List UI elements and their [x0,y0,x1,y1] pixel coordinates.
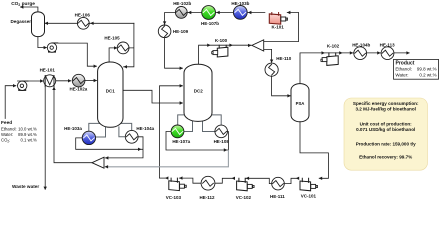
arrow VC-102 discharge [232,177,235,180]
compressor K-101 heat pump pink [269,13,287,30]
arrow into VC-101 [319,177,322,180]
svg-text:CO2:: CO2: [1,138,10,144]
arrow into HE-101 [40,79,43,82]
svg-text:HE-104b: HE-104b [352,43,370,48]
heat exchanger HE-102b gray [173,1,191,19]
heat exchanger HE-112 intercooler [199,176,215,200]
vessel Degasser [11,12,45,37]
svg-text:Ethanol:: Ethanol: [395,67,412,72]
svg-text:HE-107a: HE-107a [172,139,190,144]
wire feed inlet to pump P1 [5,86,16,119]
arrow into pump P2 [44,46,47,49]
wire DC2 condensate to mixer gray segment [105,150,228,166]
arrow into K-100 [207,44,210,47]
svg-text:Product: Product [396,60,415,66]
mixer triangle bottoms [92,157,104,168]
svg-text:99.8 wt.%: 99.8 wt.% [417,67,437,72]
svg-text:VC-103: VC-103 [166,195,182,200]
compressor VC-101 [300,178,318,198]
svg-text:VC-101: VC-101 [301,193,317,198]
wire splitter top outlet to K-101 suction [264,13,299,42]
svg-text:K-102: K-102 [327,43,340,48]
heat exchanger HE-108 [214,125,230,144]
arrow into K-101 [287,11,290,14]
wire CO2 purge line from degasser top [20,7,38,12]
svg-text:3.2 MJ-fuel/kg of bioethanol: 3.2 MJ-fuel/kg of bioethanol [355,107,416,112]
wire condensate recycle line HE-106 to degasser [45,22,134,24]
svg-text:HE-106: HE-106 [75,12,91,17]
wire DC1 bottoms collection to mixer [76,137,143,158]
arrow into VC-103 [179,176,182,179]
svg-text:89.9 wt.%: 89.9 wt.% [18,132,37,137]
heat exchanger HE-106 [75,12,91,29]
wire DC1 overhead to HE-105 [109,48,117,63]
compressor VC-103 [166,178,187,200]
wire DC1 side draw to DC2 [123,90,182,103]
heat exchanger HE-107b green [201,6,219,27]
svg-text:HE-103a: HE-103a [64,126,82,131]
arrow into mixer upper inlet [105,156,108,159]
svg-text:HE-112: HE-112 [199,195,215,200]
arrow VC-103 discharge [165,176,168,179]
svg-text:Degasser: Degasser [11,19,32,24]
heat exchanger HE-107a reboiler green [171,125,190,144]
heat exchanger HE-102a [70,74,88,91]
arrow into HE-103b [248,11,251,14]
svg-text:Specific energy consumption:: Specific energy consumption: [353,101,419,106]
arrow into VC-102 [246,177,249,180]
wire HE-110 to PSA [272,76,291,95]
arrow into HE-104b [350,51,353,54]
arrow VC-101 discharge [296,177,299,180]
arrow into splitter apex [248,44,251,47]
wire DC2 reboiler loop connections [178,115,222,132]
wire VC-101 to HE-111 [285,178,297,183]
wire DC2 overhead through K-100 to splitter [199,45,252,64]
heat exchanger HE-110 [265,56,292,76]
arrow into pump P1 [13,84,16,87]
arrow down into HE-110 [270,60,273,63]
wire HE-111 to VC-102 [246,178,272,183]
heat exchanger HE-103b blue [231,1,249,20]
arrow reflux into DC1 [124,65,127,68]
wire HE-112 to VC-103 [179,178,201,183]
arrow into DC1 upper left [94,65,97,68]
arrow into HE-106 right side [90,22,93,25]
arrow on DC1 collection line [138,148,141,151]
heat exchanger HE-103a condenser blue [64,126,95,144]
arrow into mixer lower inlet [105,165,108,168]
wire recompressed vapor VC-103 to DC2 [160,86,183,178]
svg-text:HE-102a: HE-102a [70,86,88,91]
vessel PSA [291,84,309,122]
arrow into K-102 [322,51,325,54]
svg-text:DC1: DC1 [106,89,115,94]
svg-text:K-101: K-101 [271,25,284,30]
node Product box [394,59,439,79]
svg-text:HE-113: HE-113 [380,43,396,48]
svg-text:0.071 USD/kg of bioethanol: 0.071 USD/kg of bioethanol [356,127,415,132]
svg-text:HE-111: HE-111 [270,194,285,199]
svg-text:Waste water: Waste water [12,184,39,189]
wire heat pump condensing train K-101 to HE-103b HE-107b HE-102b HE-109 [165,13,265,25]
svg-text:0.2 wt.%: 0.2 wt.% [419,73,436,78]
wire HE-109 outlet to DC2 top feed [165,38,183,69]
wire HE-102a to DC1 feed [85,80,97,82]
svg-text:Production rate: 159,000 t/y: Production rate: 159,000 t/y [356,142,416,147]
svg-text:HE-108: HE-108 [214,139,230,144]
arrow waste water outlet [44,187,47,190]
heat exchanger HE-101 feed-bottoms interchanger [40,68,56,87]
arrow on DC2 collection line [224,148,227,151]
compressor VC-102 [236,178,254,200]
svg-text:HE-103b: HE-103b [231,1,249,6]
arrow CO2 purge [20,5,23,8]
svg-text:Ethanol:: Ethanol: [1,127,17,132]
svg-text:HE-101: HE-101 [40,68,56,73]
column DC2 [184,64,212,121]
heat exchanger HE-104a [125,126,154,143]
svg-text:HE-105: HE-105 [104,35,120,40]
wire PSA product through K-102 HE-104b HE-113 to product [300,53,409,84]
svg-text:DC2: DC2 [194,88,203,93]
wire HE-105 outlet junction to HE-106 line and DC1 reflux [124,23,134,67]
svg-text:HE-110: HE-110 [276,56,292,61]
heat exchanger HE-111 intercooler [270,177,285,199]
wire DC2 bottoms collection to mixer [166,132,228,151]
svg-text:10.0 wt.%: 10.0 wt.% [18,127,37,132]
arrow K-102 discharge [339,51,342,54]
splitter triangle after K-100 [252,40,264,51]
wire DC1 reboiler loop connections [89,123,132,137]
svg-text:PSA: PSA [296,101,305,106]
wire VC-102 to HE-112 [215,178,233,183]
arrow into HE-102b [188,11,191,14]
heat exchanger HE-104b [352,43,370,60]
arrow into HE-105 [114,46,117,49]
pump P1 feed pump [18,81,29,91]
wire splitter bottom outlet to HE-110 [264,49,272,62]
wire degasser bottoms to pump P2 [38,37,47,48]
arrow feed into DC1 [94,79,97,82]
svg-text:K-100: K-100 [215,38,228,43]
svg-text:CO2 purge: CO2 purge [11,1,35,7]
svg-text:0.1 wt.%: 0.1 wt.% [20,138,37,143]
arrow product outlet [406,51,409,54]
arrow into DC2 top [180,67,183,70]
arrow into HE-107b [216,11,219,14]
svg-text:Feed: Feed [1,120,12,126]
compressor K-102 [321,43,340,65]
svg-text:HE-107b: HE-107b [201,21,219,26]
arrow into PSA [287,94,290,97]
wire HE-101 to HE-102a [56,80,71,82]
wire HE-101 hot side legs and waste water line [45,75,92,189]
svg-text:Ethanol recovery: 99.7%: Ethanol recovery: 99.7% [359,154,412,159]
arrow into degasser [45,22,48,25]
arrow into HE-113 [377,51,380,54]
heat exchanger HE-105 [104,35,129,53]
svg-text:Water:: Water: [1,132,13,137]
svg-text:Water:: Water: [395,73,408,78]
arrow up into HE-101 hot side [52,87,55,90]
svg-text:Unit cost of production:: Unit cost of production: [360,121,413,126]
heat exchanger HE-113 [380,43,396,60]
node summary info box [344,98,428,170]
arrow K-100 discharge [229,44,232,47]
wire pump P2 discharge to DC1 [52,43,96,66]
wire pump P1 discharge to HE-101 [18,80,43,82]
arrow into DC2 at mid [180,101,183,104]
svg-text:HE-104a: HE-104a [136,126,154,131]
column DC1 [98,62,123,127]
compressor K-100 [212,38,228,57]
svg-text:VC-102: VC-102 [236,195,252,200]
pump P2 degasser pump [47,43,58,53]
svg-text:HE-102b: HE-102b [173,1,191,6]
heat exchanger HE-109 [158,25,188,38]
arrow into HE-102a [68,79,71,82]
arrow down into HE-109 [163,21,166,24]
wire VC-103 discharge to recycle riser [160,177,167,179]
wire PSA tail gas to VC-101 [300,122,328,179]
arrow into DC2 upper [180,84,183,87]
svg-text:HE-109: HE-109 [173,29,189,34]
